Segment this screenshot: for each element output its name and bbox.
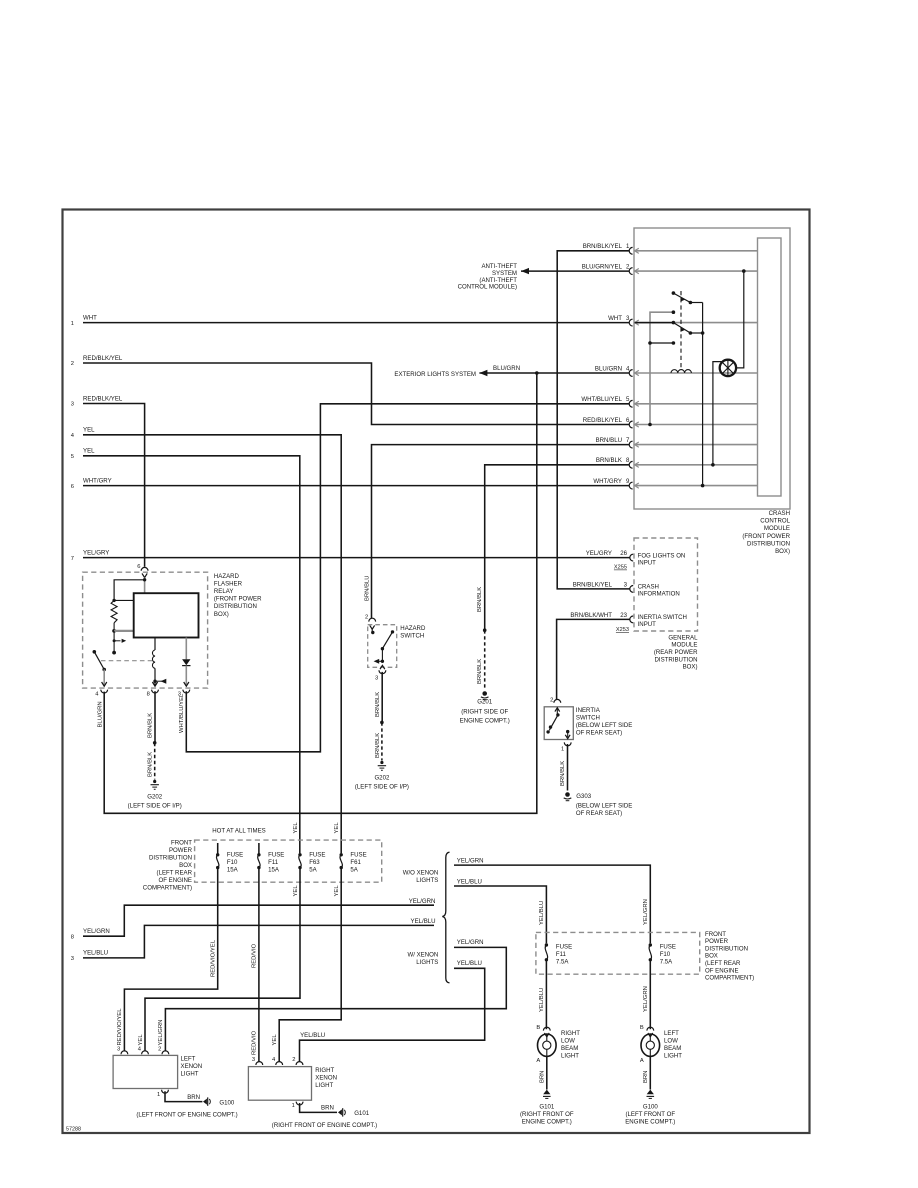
svg-text:G100: G100	[643, 1103, 659, 1110]
svg-text:2: 2	[158, 1046, 161, 1052]
svg-text:XENON: XENON	[315, 1075, 337, 1082]
svg-text:YEL/BLU: YEL/BLU	[539, 988, 545, 1012]
crash module pin 4 connector (BLU/GRN)	[595, 365, 758, 376]
svg-text:BRN/BLK: BRN/BLK	[477, 587, 483, 612]
svg-text:YEL/BLU: YEL/BLU	[300, 1032, 325, 1039]
left xenon pin 1 connector	[157, 1090, 168, 1098]
wire 1 WHT to crash module pin 3	[83, 322, 629, 324]
svg-text:YEL: YEL	[138, 1034, 144, 1046]
relay resistor	[111, 600, 117, 622]
svg-text:FLASHER: FLASHER	[214, 580, 243, 587]
svg-text:YEL/GRN: YEL/GRN	[457, 857, 484, 864]
svg-text:3: 3	[71, 402, 74, 408]
svg-text:G100: G100	[219, 1099, 235, 1106]
svg-text:(LEFT REAR: (LEFT REAR	[157, 869, 193, 876]
left connector pin 6 label (WHT/GRY)	[71, 477, 112, 489]
svg-text:BLU/GRN: BLU/GRN	[98, 701, 104, 727]
svg-text:RED/BLK/YEL: RED/BLK/YEL	[83, 395, 123, 402]
crash module indicator lamp	[720, 360, 736, 376]
svg-text:BRN/BLK/YEL: BRN/BLK/YEL	[583, 243, 623, 250]
svg-text:4: 4	[272, 1057, 276, 1063]
svg-text:FOG LIGHTS ON: FOG LIGHTS ON	[638, 552, 686, 559]
left xenon pin 2 connector	[158, 1046, 169, 1054]
left low beam light pin A connector	[640, 1056, 650, 1089]
svg-text:G202: G202	[147, 794, 163, 801]
svg-text:LOW: LOW	[561, 1038, 575, 1045]
general module pin 3 connector (BRN/BLK/YEL)	[573, 581, 680, 597]
label YEL below fuse F63	[293, 885, 299, 897]
general module dashed box	[634, 538, 698, 631]
crash module pin 6 connector (RED/BLK/YEL)	[583, 417, 758, 428]
label BRN/BLK (G201 branch lower)	[477, 659, 483, 684]
svg-text:(REAR POWER: (REAR POWER	[654, 649, 698, 656]
svg-text:CONTROL MODULE): CONTROL MODULE)	[458, 284, 517, 291]
left connector pin 5 label (YEL)	[71, 448, 95, 460]
svg-text:RED/VIO: RED/VIO	[252, 943, 258, 968]
inertia switch box	[544, 707, 573, 740]
label YEL above fuse F61	[334, 822, 340, 834]
crash module pin 2 connector (BLU/GRN/YEL)	[582, 264, 758, 275]
svg-text:BRN/BLK: BRN/BLK	[375, 733, 381, 758]
svg-text:HOT AT ALL TIMES: HOT AT ALL TIMES	[212, 828, 266, 835]
relay switch	[93, 650, 106, 671]
svg-text:BRN/BLK: BRN/BLK	[560, 761, 566, 786]
right xenon pin 1 connector	[292, 1102, 303, 1109]
label RED/VIO (below F11)	[252, 943, 258, 968]
svg-text:G201: G201	[477, 699, 493, 706]
ground G202 (left)	[128, 780, 182, 809]
front power distribution box (right) dashed box	[536, 932, 700, 974]
svg-text:RELAY: RELAY	[214, 588, 234, 595]
fuse F10 7.5A (right box)	[649, 943, 676, 965]
svg-text:7: 7	[71, 556, 74, 562]
ground G201	[460, 691, 510, 724]
svg-text:RED/VIO/YEL: RED/VIO/YEL	[211, 939, 217, 977]
svg-text:WHT: WHT	[83, 314, 97, 321]
general module pin 23 connector (BRN/BLK/WHT)	[570, 612, 687, 633]
svg-text:BOX: BOX	[705, 953, 718, 960]
wire BRN/BLK inertia switch to G303	[567, 744, 569, 791]
svg-text:COMPARTMENT): COMPARTMENT)	[143, 884, 192, 891]
xenon variant brace	[442, 852, 449, 983]
svg-text:3: 3	[71, 956, 74, 962]
relay variable tap arrow	[112, 631, 126, 655]
svg-text:WHT/GRY: WHT/GRY	[83, 477, 112, 484]
svg-text:RIGHT: RIGHT	[561, 1030, 580, 1037]
svg-text:3: 3	[375, 676, 378, 682]
crash module flasher coil L1	[671, 370, 691, 373]
wire BRN/BLK/WHT general module pin 23 to inertia switch	[557, 619, 630, 699]
left xenon location label	[136, 1111, 237, 1118]
relay pin 3 connector (bottom)	[178, 682, 190, 698]
svg-text:YEL/GRY: YEL/GRY	[586, 550, 612, 557]
wire 3 RED/BLK/YEL to hazard flasher relay pin 6	[83, 404, 145, 567]
svg-text:MODULE: MODULE	[671, 642, 697, 649]
svg-text:BOX): BOX)	[775, 548, 790, 555]
label BRN/BLK (hazard switch ground)	[375, 692, 381, 717]
svg-text:DISTRIBUTION: DISTRIBUTION	[149, 854, 192, 861]
svg-text:INFORMATION: INFORMATION	[638, 591, 680, 598]
crash module switch output wire to pin 9	[701, 303, 705, 488]
crash module pin 1 connector (BRN/BLK/YEL)	[583, 243, 758, 254]
svg-text:ENGINE COMPT.): ENGINE COMPT.)	[625, 1119, 675, 1126]
svg-text:YEL/GRN: YEL/GRN	[83, 928, 110, 935]
crash module relay switch upper contact	[672, 291, 703, 314]
label YEL/GRN (w/o xenon stub)	[409, 898, 436, 905]
left connector pin 2 label (RED/BLK/YEL)	[71, 355, 123, 367]
right xenon pin 3 connector	[252, 1057, 263, 1065]
label BRN/BLK (relay ground wire)	[148, 713, 154, 738]
svg-text:CRASH: CRASH	[638, 584, 659, 591]
svg-text:INERTIA SWITCH: INERTIA SWITCH	[638, 614, 687, 621]
relay body box	[134, 593, 199, 637]
svg-text:DISTRIBUTION: DISTRIBUTION	[705, 945, 748, 952]
label YEL/BLU (w/o xenon stub)	[411, 918, 436, 925]
svg-text:LOW: LOW	[664, 1038, 678, 1045]
ground G100 (left low beam light)	[625, 1090, 675, 1126]
svg-text:3: 3	[624, 581, 628, 588]
ground G101 (right xenon)	[338, 1108, 370, 1117]
right low beam light pin B connector	[536, 1025, 550, 1037]
left connector pin 1 label (WHT)	[71, 314, 97, 326]
crash module pin 8 connector (BRN/BLK)	[596, 457, 758, 468]
fuse F11 15A	[257, 843, 284, 874]
splice node on relay ground wire	[153, 741, 157, 745]
svg-text:FUSE: FUSE	[227, 852, 243, 859]
svg-text:26: 26	[620, 550, 627, 557]
svg-text:BEAM: BEAM	[664, 1045, 681, 1052]
label WHT/BLU/YEL (relay pin 3 drop)	[179, 693, 185, 733]
svg-text:YEL/GRN: YEL/GRN	[643, 986, 649, 1012]
crash module internal gray bus (left vertical)	[648, 312, 673, 426]
svg-text:BLU/GRN: BLU/GRN	[493, 365, 520, 372]
svg-text:(LEFT FRONT OF ENGINE COMPT.): (LEFT FRONT OF ENGINE COMPT.)	[136, 1111, 237, 1118]
svg-text:1: 1	[561, 747, 564, 753]
inertia switch pin 2 connector	[550, 698, 561, 704]
svg-text:F63: F63	[309, 859, 320, 866]
label YEL/BLU (drop to F11)	[539, 901, 545, 925]
svg-text:23: 23	[620, 612, 627, 619]
wire 8 YEL/GRN to w/o xenon stub	[83, 905, 434, 936]
svg-text:BRN: BRN	[187, 1094, 200, 1101]
wire 4 YEL down to fuse F61	[83, 435, 341, 854]
schematic frame border	[63, 210, 810, 1134]
svg-text:X253: X253	[616, 627, 629, 633]
general module label	[654, 634, 698, 670]
right xenon location label	[272, 1122, 377, 1129]
crash control module connector strip	[758, 238, 782, 496]
svg-text:LEFT: LEFT	[181, 1055, 196, 1062]
node BLU/GRN junction on pin 4 wire	[535, 371, 539, 375]
relay pin 8 connector (bottom)	[147, 682, 159, 698]
svg-text:BEAM: BEAM	[561, 1045, 578, 1052]
svg-text:(LEFT REAR: (LEFT REAR	[705, 960, 741, 967]
svg-text:G101: G101	[354, 1110, 370, 1117]
ground G100 (left xenon)	[203, 1097, 235, 1106]
svg-text:BRN/BLU: BRN/BLU	[365, 575, 371, 601]
svg-text:G202: G202	[374, 775, 390, 782]
svg-text:FRONT: FRONT	[705, 931, 726, 938]
svg-text:LIGHTS: LIGHTS	[416, 959, 438, 966]
svg-text:FUSE: FUSE	[556, 943, 572, 950]
crash control module box	[634, 228, 790, 509]
wire YEL/GRN fuse F10 to left low beam	[649, 960, 651, 1029]
svg-text:INPUT: INPUT	[638, 559, 657, 566]
svg-text:YEL: YEL	[83, 427, 95, 434]
svg-text:LEFT: LEFT	[664, 1030, 679, 1037]
svg-text:EXTERIOR LIGHTS SYSTEM: EXTERIOR LIGHTS SYSTEM	[394, 371, 476, 378]
relay internal branch to resistor	[112, 580, 144, 602]
svg-text:4: 4	[95, 692, 99, 698]
svg-text:YEL/GRN: YEL/GRN	[643, 899, 649, 925]
svg-text:4: 4	[138, 1046, 142, 1052]
label BRN/BLK (inertia ground wire)	[560, 761, 566, 786]
left connector pin 7 label (YEL/GRY)	[71, 549, 110, 561]
wire RED/VIO/YEL fuse F10 to left xenon pin 3	[124, 868, 217, 1052]
label BRN/BLK (dashed segment)	[148, 752, 154, 777]
svg-text:SWITCH: SWITCH	[576, 715, 600, 722]
hazard switch pin 3 connector	[375, 665, 386, 681]
left xenon pin 4 connector	[138, 1046, 149, 1054]
svg-text:YEL: YEL	[83, 448, 95, 455]
right xenon light label	[315, 1067, 337, 1089]
svg-text:X255: X255	[614, 565, 627, 571]
left connector pin 4 label (YEL)	[71, 427, 95, 439]
svg-text:OF ENGINE: OF ENGINE	[705, 967, 739, 974]
svg-text:POWER: POWER	[169, 847, 193, 854]
w/o xenon lights label	[403, 869, 439, 884]
label BLU/GRN (relay pin 4 drop)	[98, 701, 104, 727]
svg-text:LIGHT: LIGHT	[561, 1053, 579, 1060]
svg-text:8: 8	[71, 934, 74, 940]
relay switch mechanical dashed link	[101, 660, 153, 662]
label YEL/GRN (at left xenon pin 2)	[158, 1020, 164, 1046]
left connector pin 3 label (YEL/BLU)	[71, 950, 108, 962]
hazard flasher relay dashed box	[83, 572, 208, 688]
svg-text:DISTRIBUTION: DISTRIBUTION	[214, 603, 257, 610]
svg-text:YEL/BLU: YEL/BLU	[457, 879, 482, 886]
crash module pin 7 connector (BRN/BLU)	[596, 437, 758, 448]
label YEL/GRN (drop to F10)	[643, 899, 649, 925]
svg-text:HAZARD: HAZARD	[400, 625, 426, 632]
label BRN (right low beam light)	[540, 1071, 546, 1083]
svg-text:BRN/BLK: BRN/BLK	[596, 457, 622, 464]
wire BRN/BLK crash module pin 8 to G201	[485, 465, 630, 630]
svg-text:F10: F10	[227, 859, 238, 866]
crash module lamp wire to pin 8	[711, 362, 722, 467]
svg-text:BLU/GRN: BLU/GRN	[595, 365, 622, 372]
svg-text:WHT/BLU/YEL: WHT/BLU/YEL	[581, 396, 622, 403]
wire 2 RED/BLK/YEL to crash module pin 6	[83, 363, 629, 425]
hazard switch dashed box	[368, 625, 397, 668]
svg-text:XENON: XENON	[181, 1063, 203, 1070]
svg-text:OF ENGINE: OF ENGINE	[158, 877, 192, 884]
svg-text:LIGHT: LIGHT	[664, 1053, 682, 1060]
svg-text:1: 1	[71, 321, 74, 327]
label BRN/BLU (hazard switch feed)	[365, 575, 371, 601]
svg-text:3: 3	[252, 1057, 255, 1063]
left low beam light label	[664, 1030, 682, 1060]
svg-text:6: 6	[71, 484, 74, 490]
svg-text:ENGINE COMPT.): ENGINE COMPT.)	[460, 717, 510, 724]
relay pin 6 connector (top)	[137, 564, 148, 578]
wire YEL fuse F63 to left xenon pin 4	[145, 868, 300, 1052]
label YEL below fuse F61	[334, 885, 340, 897]
svg-text:YEL/GRY: YEL/GRY	[83, 549, 109, 556]
svg-text:2: 2	[71, 361, 74, 367]
anti-theft system arrow and wire BLU/GRN/YEL	[458, 263, 630, 291]
svg-text:BRN: BRN	[321, 1105, 334, 1112]
svg-text:YEL/BLU: YEL/BLU	[539, 901, 545, 925]
svg-text:COMPARTMENT): COMPARTMENT)	[705, 975, 754, 982]
relay pin 4 connector (bottom)	[95, 670, 107, 698]
wire 3b YEL/BLU to w/o xenon stub	[83, 925, 434, 958]
crash module pin 5 connector (WHT/BLU/YEL)	[581, 396, 757, 407]
wire BRN/BLK/YEL crash module pin 1 to general module pin 3	[557, 251, 630, 589]
fuse F61 5A	[340, 852, 367, 874]
relay coil output node	[153, 668, 166, 685]
dashed wire BRN/BLK to G202	[154, 743, 156, 780]
wire WHT/BLU/YEL relay pin 3 to crash module pin 5	[186, 404, 629, 752]
svg-text:SWITCH: SWITCH	[400, 633, 424, 640]
svg-text:7.5A: 7.5A	[556, 958, 569, 965]
svg-text:W/O XENON: W/O XENON	[403, 869, 439, 876]
svg-text:(FRONT POWER: (FRONT POWER	[742, 533, 790, 540]
svg-text:ENGINE COMPT.): ENGINE COMPT.)	[522, 1119, 572, 1126]
svg-text:BRN/BLU: BRN/BLU	[596, 437, 622, 444]
fuse F10 15A	[216, 843, 243, 874]
svg-text:OF REAR SEAT): OF REAR SEAT)	[576, 810, 622, 817]
inertia switch label	[576, 707, 632, 737]
svg-text:DISTRIBUTION: DISTRIBUTION	[747, 540, 790, 547]
crash module lamp wire to pin 2	[736, 269, 746, 368]
crash module pin 9 connector (WHT/GRY)	[593, 478, 757, 489]
label YEL above fuse F63	[293, 822, 299, 834]
svg-text:15A: 15A	[268, 867, 280, 874]
right low beam light lamp	[538, 1034, 557, 1056]
svg-text:BRN/BLK: BRN/BLK	[375, 692, 381, 717]
inertia switch contacts	[546, 708, 570, 739]
svg-text:(RIGHT FRONT OF: (RIGHT FRONT OF	[520, 1111, 574, 1118]
svg-text:W/ XENON: W/ XENON	[407, 951, 438, 958]
crash module relay switch lower contact (WHT pin 3 feed)	[635, 321, 705, 335]
svg-text:BRN: BRN	[540, 1071, 546, 1083]
svg-text:3: 3	[117, 1046, 120, 1052]
label YEL/BLU (to right low beam)	[539, 988, 545, 1012]
label YEL/GRN (to left low beam)	[643, 986, 649, 1012]
svg-text:BLU/GRN/YEL: BLU/GRN/YEL	[582, 264, 623, 271]
label RED/VIO (at right xenon)	[252, 1030, 258, 1055]
left xenon pin 3 connector	[117, 1046, 128, 1054]
label YEL (at right xenon pin 4)	[272, 1034, 278, 1046]
svg-text:CRASH: CRASH	[769, 510, 790, 517]
hazard switch pin 2 connector	[365, 615, 376, 630]
svg-text:(BELOW LEFT SIDE: (BELOW LEFT SIDE	[576, 803, 632, 810]
svg-text:BRN/BLK/YEL: BRN/BLK/YEL	[573, 581, 613, 588]
splice node G201 branch	[483, 628, 487, 632]
svg-text:BRN/BLK: BRN/BLK	[477, 659, 483, 684]
dashed wire BRN/BLK to G201	[484, 630, 486, 690]
crash module pin 3 connector (WHT)	[608, 315, 757, 326]
front power distribution box label (left)	[143, 839, 193, 891]
wire YEL/BLU (w/ xenon) to right xenon pin 2	[300, 960, 485, 1062]
crash control module label	[742, 510, 790, 555]
svg-text:BRN/BLK: BRN/BLK	[148, 713, 154, 738]
svg-text:F61: F61	[350, 859, 361, 866]
svg-text:G101: G101	[539, 1103, 555, 1110]
svg-text:FUSE: FUSE	[660, 943, 676, 950]
left low beam light pin B connector	[640, 1025, 654, 1037]
wire YEL/BLU brace to fuse F11 (right box)	[454, 879, 546, 944]
svg-text:15A: 15A	[227, 867, 239, 874]
right xenon pin 2 connector	[292, 1057, 303, 1065]
svg-text:(RIGHT FRONT OF ENGINE COMPT.): (RIGHT FRONT OF ENGINE COMPT.)	[272, 1122, 377, 1129]
svg-text:YEL/GRN: YEL/GRN	[409, 898, 436, 905]
svg-text:WHT: WHT	[608, 315, 622, 322]
svg-text:(FRONT POWER: (FRONT POWER	[214, 596, 262, 603]
svg-text:YEL: YEL	[334, 822, 340, 834]
hazard flasher relay label	[214, 573, 262, 618]
svg-text:FRONT: FRONT	[171, 839, 192, 846]
svg-text:F10: F10	[660, 951, 671, 958]
hazard switch label	[400, 625, 426, 640]
left xenon light label	[181, 1055, 203, 1077]
wire BRN/BLK from relay pin 8	[154, 691, 156, 743]
svg-text:4: 4	[71, 433, 75, 439]
svg-text:(LEFT SIDE OF I/P): (LEFT SIDE OF I/P)	[128, 802, 182, 809]
label BRN/BLK (hazard dashed segment)	[375, 733, 381, 758]
svg-text:BOX: BOX	[179, 862, 192, 869]
wire BRN left xenon to G100	[165, 1091, 202, 1101]
svg-text:1: 1	[157, 1092, 160, 1098]
svg-text:YEL/GRN: YEL/GRN	[158, 1020, 164, 1046]
relay diode	[182, 638, 190, 686]
svg-text:5A: 5A	[309, 867, 317, 874]
label YEL (at left xenon pin 4)	[138, 1034, 144, 1046]
hot at all times label	[212, 828, 266, 835]
wire YEL fuse F61 to right xenon pin 4	[279, 868, 341, 1062]
ground G303	[564, 792, 633, 817]
fuse F63 5A	[298, 852, 325, 874]
svg-text:RED/VIO: RED/VIO	[252, 1030, 258, 1055]
front power distribution box (left rear) dashed box	[195, 840, 382, 882]
svg-text:YEL: YEL	[293, 885, 299, 897]
right xenon light box	[248, 1067, 311, 1101]
relay resistor top tap to relay body	[114, 599, 134, 601]
svg-text:YEL: YEL	[272, 1034, 278, 1046]
splice node hazard switch ground	[380, 721, 384, 725]
svg-text:WHT/BLU/YEL: WHT/BLU/YEL	[179, 693, 185, 733]
front power distribution box label (right)	[705, 931, 754, 982]
wire YEL/BLU fuse F11 to right low beam	[545, 960, 547, 1029]
svg-text:RIGHT: RIGHT	[315, 1067, 334, 1074]
svg-text:(BELOW LEFT SIDE: (BELOW LEFT SIDE	[576, 722, 632, 729]
exterior lights system arrow and wire BLU/GRN	[394, 365, 629, 378]
wire YEL/GRN (w/ xenon) to left xenon pin 2	[165, 939, 506, 1051]
svg-text:RED/BLK/YEL: RED/BLK/YEL	[83, 355, 123, 362]
svg-text:YEL/BLU: YEL/BLU	[457, 960, 482, 967]
label BRN (left low beam light)	[643, 1071, 649, 1083]
svg-text:YEL: YEL	[293, 822, 299, 834]
wire 5 YEL down to fuse F63	[83, 456, 300, 854]
wire BRN/BLU crash module pin 7 to hazard switch	[372, 445, 630, 619]
right low beam light label	[561, 1030, 580, 1060]
wire 7 YEL/GRY to general module pin 26	[83, 557, 630, 559]
svg-text:INERTIA: INERTIA	[576, 707, 601, 714]
svg-text:F11: F11	[556, 951, 567, 958]
wire BRN right xenon to G101	[300, 1103, 337, 1112]
svg-text:FUSE: FUSE	[309, 852, 325, 859]
